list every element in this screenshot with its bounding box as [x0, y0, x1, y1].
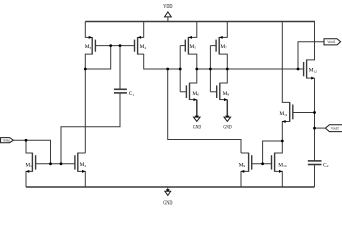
wire: M10 drain from M11 source node [275, 141, 283, 153]
wire: riser from second bus to top-right port [298, 42, 324, 69]
node: C1 riser on gate bus [60, 162, 63, 165]
ground under M8 [223, 116, 231, 131]
svg-text:M12: M12 [309, 68, 317, 74]
wire: M11 gate to output node [293, 112, 315, 114]
transistor M12 [298, 22, 317, 80]
svg-text:M4: M4 [140, 44, 147, 50]
svg-text:Vout2: Vout2 [331, 126, 339, 130]
node: M7/M8 drain junction [226, 68, 229, 71]
svg-text:M11: M11 [279, 111, 287, 117]
transistor M9 [239, 153, 252, 187]
node: M5/M6 drain junction [195, 68, 198, 71]
node: bias bus to M9 drop [166, 68, 169, 71]
node: input riser on gate bus [49, 162, 52, 165]
node: right port on output column [313, 127, 316, 130]
svg-text:GND: GND [223, 125, 231, 131]
svg-text:C2: C2 [323, 162, 329, 168]
output port Vout1 (top right) [324, 39, 341, 45]
wire: M11 source node to M9/M10 gates [263, 141, 283, 164]
wire: input to M1 drain and M1/M2 gates [13, 140, 50, 164]
wire: M9/M10 gate bus [252, 163, 272, 165]
svg-text:M9: M9 [239, 162, 246, 168]
node: M9/M10 gate junction [261, 162, 264, 165]
output port Vout2 (right) [325, 125, 342, 132]
node: M11 gate on output column [313, 111, 316, 114]
transistor M1 [25, 140, 35, 187]
svg-text:M7: M7 [220, 44, 227, 50]
wire: M1/M2 gate bus [36, 163, 75, 165]
wire: drop from bias bus to M9 drain [168, 69, 241, 153]
svg-text:GND: GND [193, 125, 201, 131]
capacitor C2 [308, 161, 329, 187]
transistor M6 [180, 69, 199, 116]
svg-text:M1: M1 [25, 162, 32, 168]
wire: output node to right port [315, 127, 326, 129]
svg-text:VDD: VDD [163, 3, 173, 10]
node: M11 source / M10 drain junction [281, 140, 284, 143]
transistor M10 [272, 153, 287, 187]
wire: bottom ground rail [26, 186, 315, 188]
svg-text:M8: M8 [223, 91, 230, 97]
node: M3 drain junction [84, 68, 87, 71]
svg-text:M3: M3 [85, 44, 92, 50]
transistor M7 [210, 22, 227, 70]
node: diode link on M3/M4 gate bus [109, 44, 112, 47]
svg-text:Ibias: Ibias [3, 139, 10, 143]
transistor M2 [75, 153, 87, 187]
input port Ibias [1, 138, 14, 143]
svg-text:M5: M5 [190, 44, 197, 50]
wire: M3/M4 gate bus [95, 45, 134, 47]
node: input / M1 drain junction [25, 139, 28, 142]
ground under M6 [193, 116, 201, 131]
wire: M11 drain column from VDD rail [282, 22, 289, 103]
node: C1 top on M3/M4 gate bus [119, 44, 122, 47]
svg-text:C1: C1 [129, 91, 135, 97]
node: M7/M8 gate junction [209, 68, 212, 71]
svg-text:GND: GND [163, 200, 172, 207]
wire: output column (M12 source to C2) [314, 78, 316, 161]
transistor M3 [85, 22, 96, 70]
svg-text:Vout1: Vout1 [327, 40, 335, 44]
wire: C1 bottom to M1/M2 gate bus [61, 93, 120, 164]
wire: M5/M6 gate riser [179, 46, 181, 92]
transistor M8 [210, 69, 229, 116]
svg-text:M10: M10 [278, 162, 286, 168]
wire: M3 diode link (gate to drain) [85, 46, 110, 69]
node: M5/M6 gate junction [179, 68, 182, 71]
node: M12 gate / port riser junction [297, 68, 300, 71]
svg-text:M6: M6 [192, 91, 199, 97]
wire: M7/M8 gate riser [209, 46, 211, 92]
svg-text:M2: M2 [80, 162, 87, 168]
transistor M4 [135, 22, 147, 55]
wire: second bus (M5/M6 drains to M7/M8 gates, M12 gate) [197, 68, 298, 70]
transistor M11 [279, 102, 292, 141]
ground (bottom center) [163, 187, 172, 207]
capacitor C1 [114, 46, 134, 98]
wire: top VDD rail [85, 21, 315, 23]
wire: M4 drain to bias bus (segment A) [138, 54, 181, 69]
transistor M5 [180, 22, 197, 70]
VDD power symbol [163, 3, 173, 21]
wire: M3 drain column down to M2 drain [84, 69, 86, 153]
